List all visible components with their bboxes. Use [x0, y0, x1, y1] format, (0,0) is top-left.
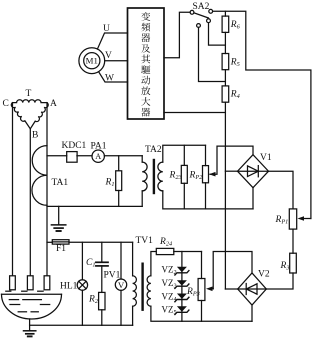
ground (TA1 circuit) [58, 206, 60, 224]
wire TA1 secondary bottom [47, 205, 142, 207]
bridge rectifier V2 [238, 273, 267, 305]
svg-text:SA2: SA2 [193, 2, 210, 12]
svg-text:U: U [103, 24, 110, 34]
svg-text:RP1: RP1 [275, 215, 289, 226]
svg-text:RP2: RP2 [189, 171, 204, 182]
svg-text:VZ3: VZ3 [162, 278, 177, 290]
wire V1 bottom [252, 188, 254, 209]
converter box U1 变频器及其驱动放大器 [128, 8, 165, 119]
svg-text:B: B [32, 131, 38, 141]
wire R6-R5 [224, 32, 226, 53]
wire bus to V1 left [225, 170, 237, 172]
potentiometer RP1 [289, 209, 296, 229]
svg-text:VZ2: VZ2 [162, 265, 177, 277]
zener chain wire [181, 252, 183, 322]
wire U [97, 33, 127, 49]
fuse F1 [47, 241, 52, 243]
svg-text:V1: V1 [260, 153, 272, 163]
wire V2 bottom [251, 305, 253, 321]
svg-text:C: C [3, 99, 9, 109]
wire V1 right to RP1 [269, 171, 294, 209]
potentiometer RP3 [201, 252, 203, 279]
svg-text:R1: R1 [105, 177, 115, 188]
svg-text:V: V [118, 280, 125, 290]
wire phase C [12, 103, 14, 276]
svg-text:PA1: PA1 [91, 141, 107, 151]
current transformer TA1 [32, 146, 47, 206]
zener VZ3 [177, 280, 187, 285]
bath surface ticks [6, 290, 11, 292]
bath liquid [9, 299, 18, 301]
wire center bus [224, 102, 226, 289]
lamp HL1 [81, 242, 83, 279]
bath tank [2, 293, 62, 295]
wire SA2 contact to R6-R5 node [209, 23, 226, 45]
wire TA2 secondary bottom rail [163, 191, 253, 209]
svg-text:W: W [105, 73, 114, 83]
wire [77, 155, 92, 157]
wire F1 rail [69, 241, 133, 243]
svg-text:R23: R23 [169, 171, 182, 182]
potentiometer RP2 [205, 145, 207, 165]
svg-text:V2: V2 [258, 270, 270, 280]
electrode 1 [10, 276, 16, 290]
zener VZ2 [177, 267, 187, 272]
resistor R4 [222, 86, 229, 102]
svg-text:HL1: HL1 [60, 281, 78, 291]
wire TA1 secondary top [47, 155, 67, 157]
svg-text:R5: R5 [230, 57, 240, 68]
wire [104, 155, 142, 157]
wire SA2 contact to R5-R4 node [199, 27, 226, 81]
resistor R3 [290, 253, 297, 273]
resistor R24 [156, 248, 174, 254]
svg-text:PV1: PV1 [104, 271, 121, 281]
resistor R5 [222, 54, 229, 70]
wire RP2 wiper to V1 top [210, 146, 253, 174]
electrode 3 [44, 276, 50, 290]
svg-text:R24: R24 [159, 237, 172, 248]
resistor R23 [183, 145, 185, 165]
svg-text:VZ4: VZ4 [162, 292, 178, 304]
wire box to SA2 common [164, 12, 190, 57]
capacitor C1 [101, 242, 103, 262]
wire V [105, 60, 128, 62]
ground (bath) [29, 319, 31, 331]
wire SA2 top contact to right bus [213, 11, 311, 218]
ammeter PA1 [92, 150, 104, 162]
rectifier KDC1 [67, 152, 77, 163]
motor M1 [79, 48, 105, 74]
wire R3 to V2 right [266, 273, 293, 289]
wire right bus to RP1 wiper [304, 218, 311, 220]
svg-text:A: A [50, 99, 57, 109]
svg-text:VZ5: VZ5 [162, 304, 177, 316]
svg-text:R4: R4 [230, 90, 240, 101]
svg-text:R2: R2 [88, 295, 99, 306]
wire TV1 secondary bottom rail [151, 306, 252, 321]
wire chain top [224, 11, 226, 16]
wire V2 top to RP3 wiper [213, 252, 252, 289]
wire bus to V2 left [225, 288, 237, 290]
svg-text:A: A [95, 152, 101, 161]
wire R24 to RP3 top [174, 251, 202, 253]
svg-text:C1: C1 [86, 258, 96, 269]
resistor R6 [222, 16, 229, 32]
wire phase B [29, 129, 31, 276]
svg-text:T: T [26, 89, 32, 99]
wire box to chain [164, 112, 225, 114]
electrode 2 [27, 276, 33, 290]
wire TA2 secondary top rail [163, 145, 206, 162]
wire primary bottom rail to bath [30, 324, 133, 326]
zener VZ4 [177, 294, 187, 299]
svg-text:KDC1: KDC1 [62, 141, 87, 151]
zener VZ5 [177, 306, 187, 311]
svg-text:TA2: TA2 [145, 145, 162, 155]
svg-text:M1: M1 [86, 56, 98, 66]
svg-text:R3: R3 [280, 261, 290, 272]
resistor R2 [101, 266, 103, 293]
wire W [99, 72, 128, 82]
svg-text:TA1: TA1 [52, 178, 69, 188]
wire RP1 to R3 [292, 229, 294, 253]
svg-text:R6: R6 [230, 20, 241, 31]
voltmeter PV1 [120, 242, 122, 279]
wire R5-R4 [224, 70, 226, 86]
svg-text:TV1: TV1 [136, 236, 154, 246]
svg-text:F1: F1 [56, 244, 66, 254]
bridge rectifier V1 [238, 155, 269, 188]
svg-text:V: V [105, 51, 112, 61]
wire phase A [46, 103, 48, 276]
resistor R1 [118, 156, 120, 171]
wire TV1 secondary top [151, 252, 156, 276]
